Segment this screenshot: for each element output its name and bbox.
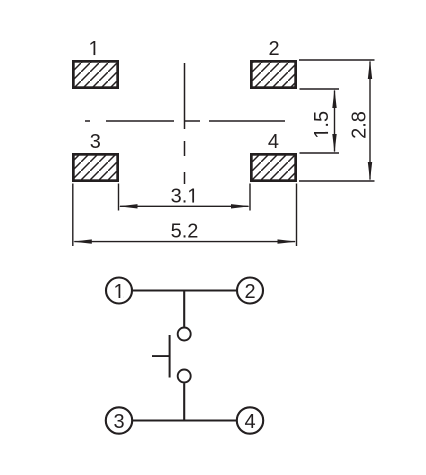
- svg-text:1: 1: [88, 38, 99, 60]
- svg-text:5.2: 5.2: [171, 220, 199, 242]
- svg-text:3: 3: [90, 131, 101, 153]
- svg-text:4: 4: [244, 411, 255, 433]
- svg-text:3.1: 3.1: [171, 186, 199, 208]
- svg-text:2.8: 2.8: [349, 111, 371, 139]
- svg-text:4: 4: [268, 131, 279, 153]
- svg-text:2: 2: [268, 38, 279, 60]
- svg-text:3: 3: [113, 411, 124, 433]
- svg-text:1: 1: [113, 281, 124, 303]
- svg-text:1.5: 1.5: [311, 111, 333, 139]
- svg-text:2: 2: [244, 281, 255, 303]
